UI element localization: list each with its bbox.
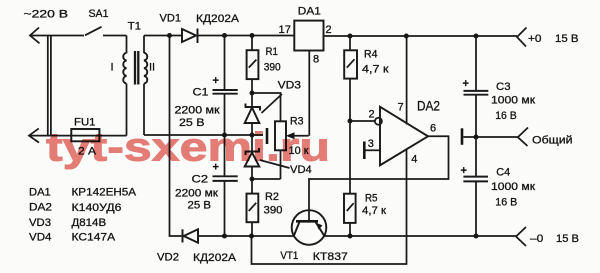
- label T1: [128, 20, 142, 32]
- svg-text:SA1: SA1: [89, 8, 109, 20]
- svg-text:390: 390: [264, 205, 283, 217]
- wire top input: [30, 35, 84, 37]
- label pin 3 opamp: [368, 138, 374, 150]
- wire R3 bottom to node: [252, 178, 281, 180]
- op-amp DA2 triangle: [380, 107, 428, 166]
- label VD1: [160, 12, 182, 24]
- label 15 V bottom: [556, 233, 579, 245]
- svg-text:4,7 к: 4,7 к: [362, 205, 386, 217]
- label winding II: [149, 62, 155, 74]
- label pin 6 opamp: [430, 123, 436, 135]
- parts list DA1: [29, 186, 137, 198]
- label DA2: [417, 98, 440, 114]
- label C4 value: [491, 181, 535, 193]
- label VD2: [157, 252, 179, 264]
- svg-text:+: +: [213, 75, 219, 87]
- node C1 top: [222, 33, 227, 38]
- common bus bar pin3: [363, 142, 366, 160]
- capacitor C3: [464, 36, 489, 137]
- terminal +0: [517, 28, 527, 47]
- terminal -0: [516, 227, 526, 246]
- label R1 value: [264, 62, 281, 74]
- transformer T1 winding I: [123, 36, 126, 136]
- pointer VD3: [262, 94, 283, 113]
- label R3 value: [289, 145, 309, 157]
- label C3 value: [491, 95, 535, 107]
- svg-text:Общий: Общий: [532, 134, 573, 146]
- svg-text:C3: C3: [496, 81, 511, 93]
- wire bottom input: [29, 135, 127, 137]
- svg-text:8: 8: [313, 54, 319, 66]
- wire input pair vertical: [48, 36, 51, 136]
- label C2: [192, 174, 209, 186]
- node VD4 anode: [250, 177, 255, 182]
- svg-text:+: +: [461, 165, 467, 177]
- parts list DA2: [29, 202, 122, 214]
- svg-text:VD3: VD3: [29, 217, 51, 229]
- wire pin3 stub: [365, 149, 380, 151]
- svg-text:15 В: 15 В: [555, 33, 579, 45]
- zener VD4: [245, 135, 260, 179]
- label R1: [266, 46, 279, 58]
- svg-text:+0: +0: [528, 33, 542, 45]
- label C1 plus: [213, 75, 219, 87]
- wire pin2 input: [350, 120, 375, 122]
- wire opamp output loop: [309, 136, 449, 221]
- label C3: [496, 81, 511, 93]
- svg-text:I: I: [111, 62, 114, 74]
- node R4 top: [348, 34, 353, 39]
- resistor R1: [247, 36, 259, 94]
- svg-text:VD4: VD4: [29, 231, 52, 243]
- node common: [474, 135, 479, 140]
- label pin 8: [313, 54, 319, 66]
- diode VD1: [182, 29, 198, 44]
- svg-text:C2: C2: [192, 174, 209, 186]
- wire pin4 supply: [252, 149, 407, 264]
- common bus bar mid: [266, 128, 269, 144]
- node R1 top: [250, 33, 255, 38]
- resistor R4: [344, 36, 357, 121]
- svg-text:К140УД6: К140УД6: [72, 202, 122, 214]
- label C4 voltage: [495, 197, 517, 209]
- capacitor C2: [213, 135, 238, 236]
- svg-text:1000 мк: 1000 мк: [491, 95, 535, 107]
- label -0: [530, 233, 543, 245]
- zener VD3: [245, 93, 260, 135]
- svg-text:25 В: 25 В: [188, 200, 212, 212]
- svg-text:C4: C4: [496, 166, 510, 178]
- label FU1: [74, 117, 96, 129]
- svg-text:17: 17: [279, 24, 292, 36]
- label pin 7 opamp: [398, 102, 404, 114]
- node C3 top: [474, 34, 479, 39]
- svg-text:–0: –0: [530, 233, 543, 245]
- node C2 bottom: [222, 234, 227, 239]
- label C1 value: [175, 105, 220, 117]
- svg-text:DA2: DA2: [417, 98, 440, 114]
- svg-text:2: 2: [369, 109, 375, 121]
- label C1: [193, 87, 209, 99]
- svg-text:6: 6: [430, 123, 436, 135]
- svg-text:1000 мк: 1000 мк: [491, 181, 535, 193]
- label C1 voltage: [179, 117, 205, 129]
- transformer T1 winding II: [144, 36, 147, 136]
- label C2 plus: [213, 162, 219, 174]
- label R2: [265, 191, 279, 203]
- svg-text:DA1: DA1: [29, 186, 51, 198]
- terminal common: [518, 128, 528, 147]
- label C3 voltage: [495, 110, 517, 122]
- label DA1: [298, 5, 321, 17]
- input terminal arrow top: [30, 28, 40, 44]
- parts list VD3: [29, 217, 106, 229]
- node R5 bottom: [348, 234, 353, 239]
- wire VD1 to DA1: [197, 35, 294, 37]
- wire DA1 output rail: [324, 35, 518, 37]
- node pin7 top: [404, 34, 409, 39]
- node junction T1/VD2 branch: [167, 33, 172, 38]
- transistor VT1: [292, 210, 327, 245]
- label pin 4 opamp: [411, 154, 417, 166]
- svg-text:+: +: [463, 78, 469, 90]
- svg-text:VD1: VD1: [160, 12, 182, 24]
- svg-text:R1: R1: [266, 46, 279, 58]
- fuse FU1: [71, 129, 99, 141]
- label C2 voltage: [188, 200, 212, 212]
- wire negative rail right: [324, 235, 516, 237]
- svg-text:VD2: VD2: [157, 252, 179, 264]
- wire pin7 supply: [406, 36, 408, 125]
- wire common rail: [463, 136, 517, 138]
- wire mid rail: [144, 134, 263, 136]
- label KT837: [313, 251, 348, 263]
- svg-text:DA1: DA1: [298, 5, 321, 17]
- wire branch down to VD2: [170, 36, 183, 237]
- label 2 A: [78, 146, 97, 158]
- label VD3: [278, 80, 301, 92]
- svg-text:КТ837: КТ837: [313, 251, 348, 263]
- node zener chain mid: [250, 133, 255, 138]
- label pin 17: [279, 24, 292, 36]
- capacitor C1: [213, 36, 238, 136]
- label pin 2 opamp: [369, 109, 375, 121]
- label 15 V top: [555, 33, 579, 45]
- input terminal arrow bottom: [29, 128, 39, 142]
- wire DA1 pin 8: [308, 51, 310, 136]
- svg-text:2200 мк: 2200 мк: [175, 105, 220, 117]
- svg-text:15 В: 15 В: [556, 233, 579, 245]
- label R4 value: [362, 63, 389, 75]
- label common: [532, 134, 573, 146]
- svg-text:4,7 к: 4,7 к: [362, 63, 389, 75]
- wire node to R3 top: [252, 93, 281, 121]
- node R2 bottom: [249, 234, 254, 239]
- svg-text:R2: R2: [265, 191, 279, 203]
- svg-text:7: 7: [398, 102, 404, 114]
- svg-text:II: II: [149, 62, 155, 74]
- pointer VD4: [260, 160, 290, 168]
- svg-text:Д814В: Д814В: [72, 217, 107, 229]
- svg-text:3: 3: [368, 138, 374, 150]
- node divider pin2: [348, 119, 353, 124]
- svg-text:КС147А: КС147А: [72, 232, 116, 244]
- label R4: [364, 49, 378, 61]
- svg-text:КД202А: КД202А: [193, 252, 237, 264]
- svg-text:2200 мк: 2200 мк: [175, 188, 218, 200]
- svg-text:R4: R4: [364, 49, 378, 61]
- label +0: [528, 33, 542, 45]
- diode VD2: [183, 229, 199, 242]
- resistor R5: [344, 194, 356, 236]
- label SA1: [89, 8, 109, 20]
- svg-text:VT1: VT1: [280, 250, 298, 262]
- label C4 plus: [461, 165, 467, 177]
- wire negative rail left: [198, 235, 294, 237]
- svg-text:~220 В: ~220 В: [24, 9, 69, 21]
- svg-text:390: 390: [264, 62, 281, 74]
- label pin 2 DA1: [326, 24, 332, 36]
- wire secondary top to VD1: [144, 35, 182, 37]
- label VD4: [290, 164, 312, 176]
- inversion bubble pin2: [375, 118, 382, 125]
- label KD202A top: [196, 13, 240, 25]
- label R5 value: [362, 205, 386, 217]
- svg-text:КР142ЕН5А: КР142ЕН5А: [72, 187, 137, 199]
- node C4 bottom: [474, 234, 479, 239]
- label R5: [365, 192, 378, 204]
- svg-text:КД202А: КД202А: [196, 13, 240, 25]
- svg-text:16 В: 16 В: [495, 197, 517, 209]
- label winding I: [111, 62, 114, 74]
- label R3: [290, 116, 304, 128]
- label C3 plus: [463, 78, 469, 90]
- svg-text:4: 4: [411, 154, 417, 166]
- switch SA1: [85, 27, 127, 36]
- svg-text:DA2: DA2: [29, 202, 52, 214]
- svg-text:16 В: 16 В: [495, 110, 517, 122]
- label ~220 V: [24, 9, 69, 21]
- parts list VD4: [29, 231, 116, 243]
- common bus bar right: [461, 128, 464, 145]
- label VT1: [280, 250, 298, 262]
- label R2 value: [264, 205, 283, 217]
- svg-text:C1: C1: [193, 87, 209, 99]
- potentiometer R3: [275, 121, 286, 179]
- wiper R3: [286, 132, 309, 139]
- svg-text:2: 2: [326, 24, 332, 36]
- wire divider to R5: [349, 121, 351, 194]
- label C2 value: [175, 188, 218, 200]
- regulator DA1: [294, 21, 323, 51]
- node C1/C2 mid: [222, 133, 227, 138]
- capacitor C4: [463, 137, 488, 236]
- resistor R2: [247, 179, 259, 236]
- node R1 bottom: [250, 91, 255, 96]
- svg-text:VD3: VD3: [278, 80, 301, 92]
- label KD202A bottom: [193, 252, 237, 264]
- transformer T1 core: [135, 51, 138, 85]
- svg-text:tyt-sxemi.ru: tyt-sxemi.ru: [46, 126, 330, 170]
- svg-text:R5: R5: [365, 192, 378, 204]
- svg-text:T1: T1: [128, 20, 142, 32]
- label C4: [496, 166, 510, 178]
